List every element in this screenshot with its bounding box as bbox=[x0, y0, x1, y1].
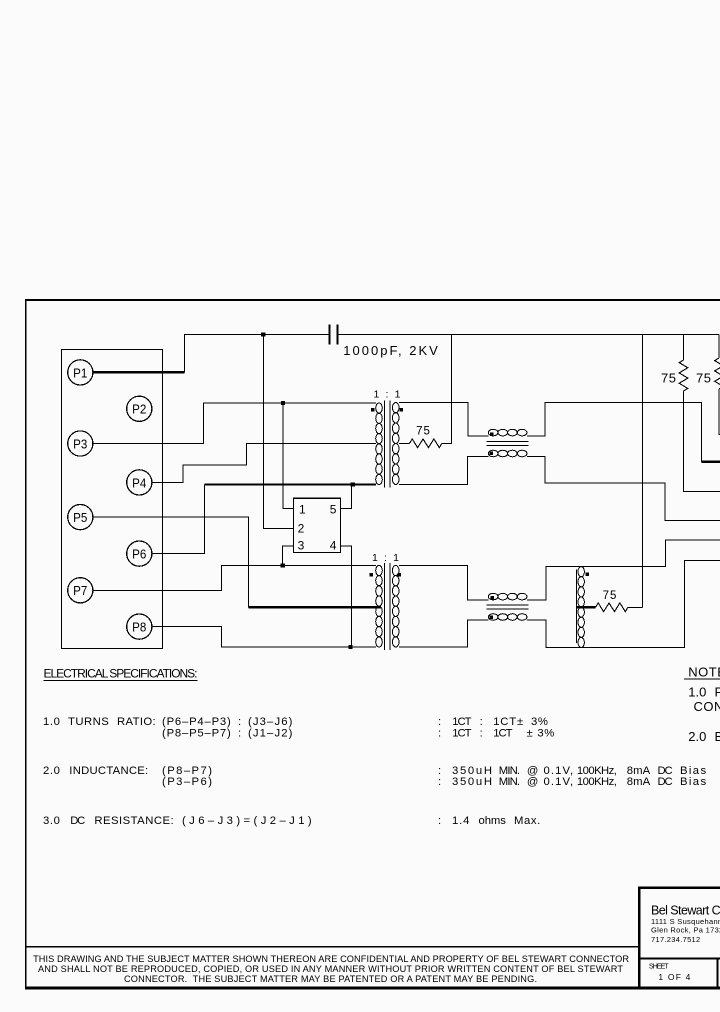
svg-text:75: 75 bbox=[416, 425, 431, 437]
svg-text:P6: P6 bbox=[132, 547, 146, 562]
svg-text:1: 1 bbox=[299, 502, 306, 516]
svg-text:1000pF, 2KV: 1000pF, 2KV bbox=[343, 343, 438, 358]
svg-text:1.0F: 1.0F bbox=[688, 684, 720, 699]
svg-text:1 : 1: 1 : 1 bbox=[372, 552, 399, 564]
svg-text:P5: P5 bbox=[73, 510, 87, 525]
svg-text:1 OF 4: 1 OF 4 bbox=[658, 972, 691, 982]
svg-text:P7: P7 bbox=[73, 583, 87, 598]
svg-text:75: 75 bbox=[696, 370, 711, 385]
svg-text:75: 75 bbox=[661, 370, 676, 385]
svg-text:P8: P8 bbox=[132, 620, 146, 635]
svg-text:P2: P2 bbox=[132, 402, 146, 417]
svg-text:75: 75 bbox=[603, 590, 618, 602]
svg-text:THIS DRAWING AND THE SUBJECT M: THIS DRAWING AND THE SUBJECT MATTER SHOW… bbox=[33, 954, 629, 964]
svg-text:1 : 1: 1 : 1 bbox=[374, 388, 401, 400]
svg-text:2: 2 bbox=[298, 522, 305, 536]
svg-text:ELECTRICAL SPECIFICATIONS:: ELECTRICAL SPECIFICATIONS: bbox=[44, 667, 198, 681]
svg-text:717.234.7512: 717.234.7512 bbox=[651, 935, 700, 944]
svg-text:Bel Stewart Co: Bel Stewart Co bbox=[651, 903, 720, 917]
svg-text:4: 4 bbox=[330, 539, 337, 553]
svg-text:P1: P1 bbox=[73, 365, 87, 380]
svg-text:P3: P3 bbox=[73, 436, 87, 451]
svg-text:CONNECTOR. THE SUBJECT MATTER: CONNECTOR. THE SUBJECT MATTER MAY BE PAT… bbox=[124, 974, 537, 984]
svg-text:P4: P4 bbox=[132, 475, 146, 490]
svg-text:Glen Rock, Pa 17327: Glen Rock, Pa 17327 bbox=[651, 926, 720, 935]
svg-text:3.0DCRESISTANCE:(J6–J3)=(J2–J1: 3.0DCRESISTANCE:(J6–J3)=(J2–J1):1.4ohmsM… bbox=[43, 815, 541, 827]
svg-text:CONN: CONN bbox=[694, 699, 720, 714]
svg-text:5: 5 bbox=[330, 502, 337, 516]
svg-text:3: 3 bbox=[298, 539, 305, 553]
svg-text:NOTES:: NOTES: bbox=[688, 665, 720, 680]
svg-text:2.0B: 2.0B bbox=[688, 729, 720, 744]
svg-text:SHEET: SHEET bbox=[649, 961, 669, 970]
svg-text:1111 S Susquehanna Trail: 1111 S Susquehanna Trail bbox=[651, 917, 720, 926]
svg-text:AND SHALL NOT BE REPRODUCED, C: AND SHALL NOT BE REPRODUCED, COPIED, OR … bbox=[38, 964, 623, 974]
